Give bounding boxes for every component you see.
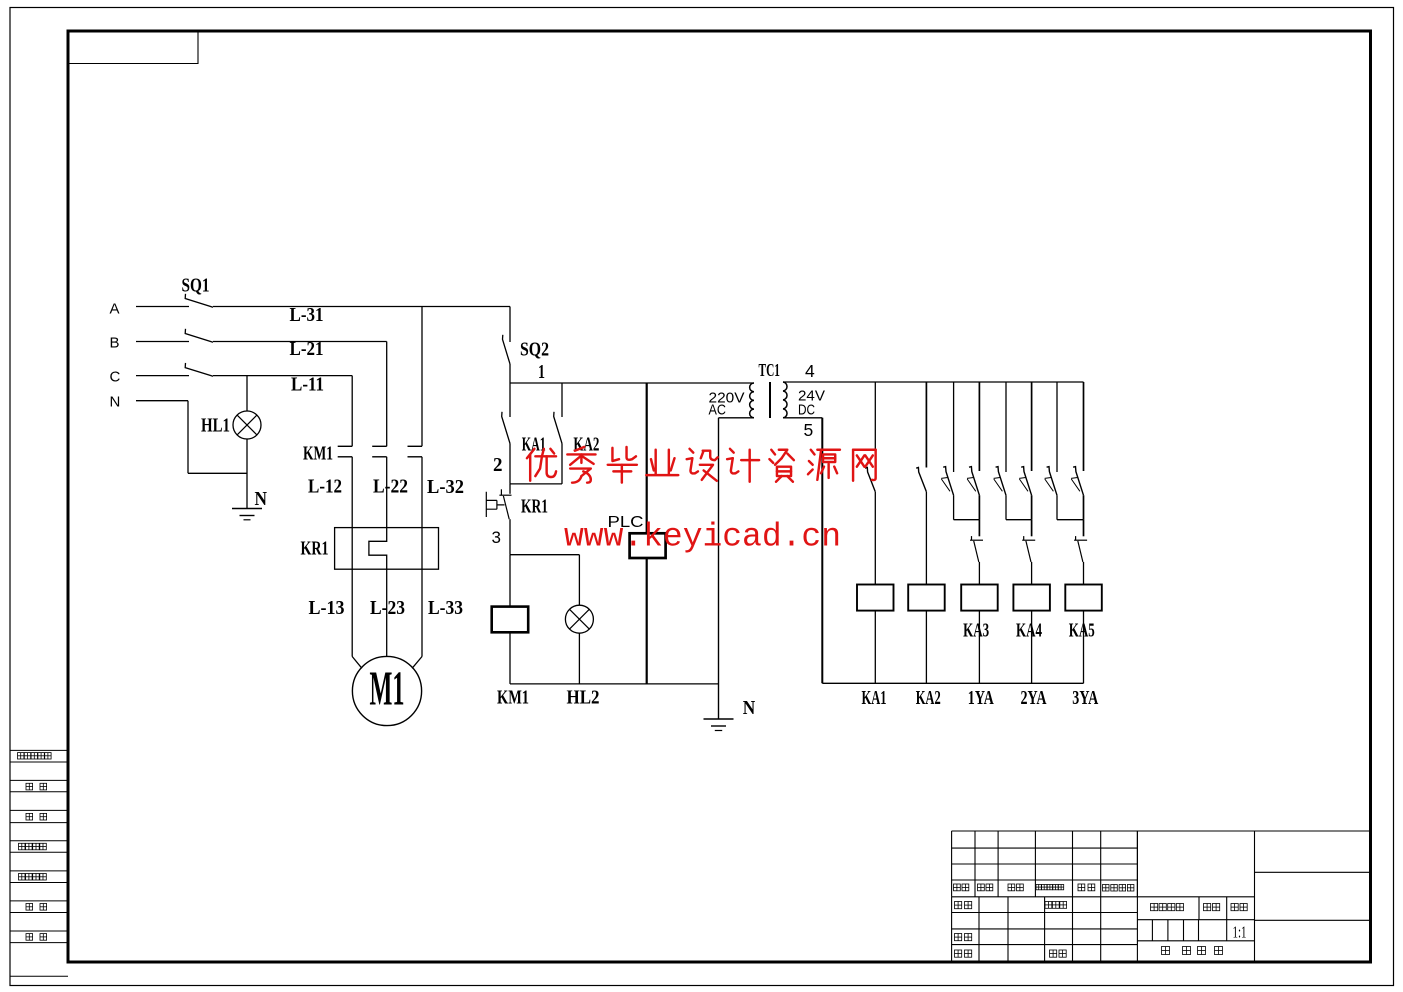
- bottom bus (control): [510, 683, 719, 685]
- wire to HL2: [578, 555, 580, 605]
- node 5 bottom bus: [822, 682, 1083, 684]
- phase line C: [136, 375, 189, 377]
- relay branch KA1: [874, 382, 876, 468]
- node 3 wire: [510, 554, 579, 556]
- relay branch KA2: [925, 382, 927, 468]
- svg-text:KA3: KA3: [963, 619, 989, 641]
- top-left small box: [68, 31, 198, 64]
- svg-text:L-21: L-21: [290, 338, 324, 360]
- svg-text:N: N: [255, 488, 268, 510]
- strip label jiuditu-zonghao: [19, 843, 26, 850]
- thermal contact KR1: [499, 494, 511, 496]
- svg-text:L-13: L-13: [309, 597, 345, 619]
- wire C to HL1: [246, 376, 248, 411]
- phase line A: [136, 306, 189, 308]
- svg-text:TC1: TC1: [759, 360, 781, 380]
- tb label zhiliang: [1204, 904, 1211, 911]
- svg-text:L-12: L-12: [308, 476, 342, 498]
- svg-text:DC: DC: [798, 402, 815, 419]
- svg-text:AC: AC: [709, 402, 727, 419]
- strip label ditu-zonghao: [19, 874, 26, 881]
- lamp HL2: [565, 605, 593, 633]
- contact KA1: [502, 412, 510, 444]
- tb label biaoji: [954, 884, 961, 891]
- branch 1YA sub-wire a: [953, 382, 955, 472]
- svg-text:L-23: L-23: [370, 597, 405, 619]
- svg-text:1:1: 1:1: [1233, 923, 1247, 942]
- svg-text:M1: M1: [370, 661, 405, 716]
- svg-text:2: 2: [493, 454, 503, 476]
- tb label jieduanbiaoji: [1151, 904, 1158, 911]
- svg-text:1: 1: [538, 361, 545, 383]
- tb label nianyueri: [1103, 885, 1110, 892]
- svg-text:L-11: L-11: [291, 374, 324, 396]
- NC contact KA5: [1074, 539, 1087, 541]
- node 4 bus (24V): [783, 381, 1084, 383]
- coil KA2: [908, 585, 945, 611]
- ground (main): [704, 718, 734, 720]
- branch 3YA sub-wire a: [1056, 382, 1058, 472]
- tb label sheji: [955, 902, 962, 909]
- left margin title strip: [10, 749, 68, 751]
- wire to KM1 coil: [509, 555, 511, 607]
- ground (HL1): [232, 508, 262, 510]
- coil 1YA: [961, 585, 998, 611]
- svg-text:HL1: HL1: [201, 415, 230, 437]
- branch 2YA sub-wire a: [1005, 382, 1007, 472]
- svg-text:SQ1: SQ1: [182, 275, 210, 297]
- tb label genggai-wenjianhao: [1036, 885, 1041, 890]
- tb label pizhun: [1050, 950, 1057, 957]
- tb label shenhe: [955, 934, 962, 941]
- wire A to SQ2: [509, 307, 511, 343]
- title block table: [952, 830, 1138, 832]
- branch 3YA rejoin wire: [1057, 519, 1084, 521]
- svg-text:SQ2: SQ2: [520, 339, 549, 361]
- svg-text:L-33: L-33: [428, 597, 463, 619]
- branch 2YA rejoin wire: [1006, 519, 1032, 521]
- transformer TC1 secondary: [783, 382, 787, 418]
- wire L-31 drop: [421, 307, 423, 447]
- strip label miaojiao: [26, 813, 33, 820]
- svg-text:KM1: KM1: [303, 443, 333, 465]
- svg-text:N: N: [743, 697, 756, 719]
- NC contact KA4: [1022, 539, 1035, 541]
- coil 2YA: [1013, 585, 1050, 611]
- svg-text:KA5: KA5: [1069, 619, 1095, 641]
- svg-text:HL2: HL2: [567, 687, 600, 709]
- wire KA1 contact branch: [509, 383, 511, 417]
- tb label bili: [1231, 904, 1238, 911]
- transformer core: [769, 382, 771, 418]
- coil KA1: [857, 585, 894, 611]
- contactor KM1 main contacts: [338, 445, 353, 447]
- svg-text:L-22: L-22: [373, 476, 408, 498]
- strip label miaotu: [26, 783, 33, 790]
- node 1 bus: [510, 382, 754, 384]
- neutral wire N: [136, 400, 188, 402]
- coil 3YA: [1065, 585, 1102, 611]
- svg-text:A: A: [110, 301, 120, 318]
- svg-text:L-31: L-31: [290, 304, 324, 326]
- svg-text:5: 5: [804, 420, 814, 440]
- node 2 wire: [510, 483, 562, 485]
- tb label gongyi: [955, 950, 962, 957]
- PLC box: [630, 533, 666, 558]
- tb label qianzi2: [1078, 884, 1085, 891]
- svg-text:1YA: 1YA: [968, 687, 994, 709]
- motor M1 circle: [352, 656, 421, 725]
- branch 3YA sub-wire b: [1083, 382, 1085, 471]
- svg-text:KR1: KR1: [521, 496, 548, 518]
- wire KA2 contact branch: [561, 383, 563, 417]
- lamp HL1: [233, 411, 261, 439]
- svg-text:L-32: L-32: [427, 476, 464, 498]
- coil KM1: [492, 607, 529, 633]
- svg-text:B: B: [110, 335, 120, 352]
- svg-text:N: N: [110, 394, 121, 411]
- svg-text:www.keyicad.cn: www.keyicad.cn: [564, 519, 841, 556]
- strip label qianzi: [26, 904, 33, 911]
- contact KA2: [554, 412, 562, 444]
- PLC wire: [646, 383, 648, 533]
- wire node5 drop: [821, 418, 823, 684]
- wires KR1 to motor: [351, 569, 353, 656]
- tb label biaozhunhua: [1045, 902, 1052, 909]
- branch 1YA rejoin wire: [954, 519, 980, 521]
- strip label jieyongjian-dengji: [18, 753, 24, 759]
- switch SQ1 pole A: [185, 294, 213, 307]
- secondary bottom wire: [783, 417, 822, 419]
- svg-text:3: 3: [492, 528, 501, 547]
- svg-text:KR1: KR1: [301, 538, 329, 560]
- wire HL1 to ground: [246, 439, 248, 509]
- svg-text:KA4: KA4: [1016, 619, 1042, 641]
- strip label riqi: [26, 934, 33, 941]
- transformer TC1 primary: [750, 383, 754, 418]
- tb label gong-zhang-di-zhang: [1162, 947, 1170, 955]
- NC contact KA3: [970, 539, 983, 541]
- wire L-21 drop: [386, 342, 388, 447]
- svg-text:KA2: KA2: [916, 687, 941, 709]
- svg-text:2YA: 2YA: [1021, 687, 1047, 709]
- tb label chushu: [978, 884, 985, 891]
- branch 1YA sub-wire b: [978, 382, 980, 471]
- svg-text:3YA: 3YA: [1072, 687, 1098, 709]
- svg-text:KA2: KA2: [573, 434, 599, 456]
- 220V return wire / ground stem: [718, 418, 720, 719]
- branch 2YA sub-wire b: [1031, 382, 1033, 471]
- tb label fenqu: [1008, 884, 1015, 891]
- svg-text:4: 4: [805, 361, 815, 381]
- svg-text:KM1: KM1: [497, 687, 529, 709]
- primary bottom wire: [719, 417, 755, 419]
- red watermark line 1 (Chinese): [527, 447, 876, 483]
- wire L-11 drop: [351, 376, 353, 447]
- switch SQ1 pole C: [185, 363, 213, 376]
- phase line B: [136, 341, 189, 343]
- svg-text:KA1: KA1: [862, 687, 887, 709]
- svg-text:C: C: [110, 369, 121, 386]
- switch SQ1 pole B: [185, 329, 213, 342]
- thermal relay KR1 box: [335, 528, 439, 570]
- KR1 heater elements: [351, 528, 353, 570]
- switch SQ2: [503, 335, 511, 364]
